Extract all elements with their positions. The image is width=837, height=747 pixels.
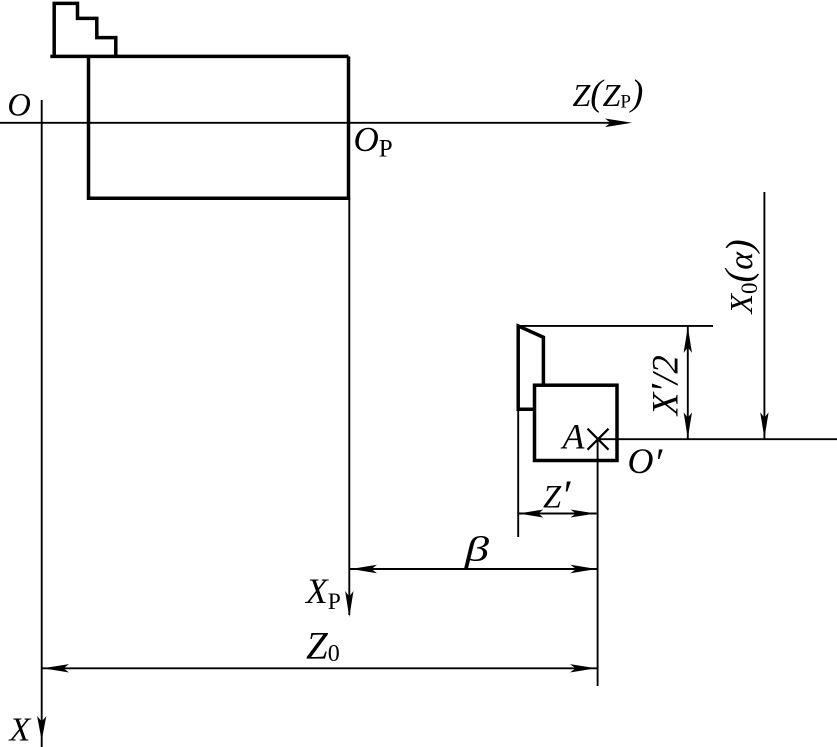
Z0 dimension line [42, 667, 598, 669]
XP extension line (below workpiece right edge) [348, 198, 350, 615]
svg-text:Z(ZP): Z(ZP) [573, 73, 644, 114]
Z' dimension line [517, 513, 596, 515]
Z axis arrowhead [605, 119, 632, 128]
tool bit [518, 326, 543, 409]
X0(alpha) dimension line [763, 192, 765, 439]
tool tip extension line (to X'/2 dim) [518, 325, 713, 327]
X'/2 dimension line [687, 326, 689, 439]
svg-text:X0(α): X0(α) [718, 239, 762, 315]
svg-text:A: A [561, 417, 586, 457]
vertical extension through A [597, 439, 599, 686]
tool post square [535, 385, 618, 460]
svg-text:X: X [8, 711, 32, 747]
X axis vertical line [41, 100, 43, 747]
top line (chuck bottom / workpiece top edge) [50, 55, 348, 59]
point A cross [588, 429, 609, 450]
svg-text:X′/2: X′/2 [643, 355, 688, 417]
chuck jaw (stepped block) [54, 3, 116, 56]
workpiece rectangle [89, 56, 349, 198]
beta dimension line [350, 568, 598, 570]
svg-text:β: β [464, 530, 490, 569]
X axis arrowhead [37, 716, 46, 741]
svg-text:O: O [7, 88, 30, 124]
svg-text:O′: O′ [628, 440, 664, 485]
Z' extension line (below tool left edge) [517, 409, 519, 537]
O' horizontal line (through A to right edge) [598, 438, 837, 440]
XP arrowhead [345, 591, 353, 617]
Z axis line [0, 122, 624, 124]
svg-text:Z′: Z′ [543, 474, 571, 520]
